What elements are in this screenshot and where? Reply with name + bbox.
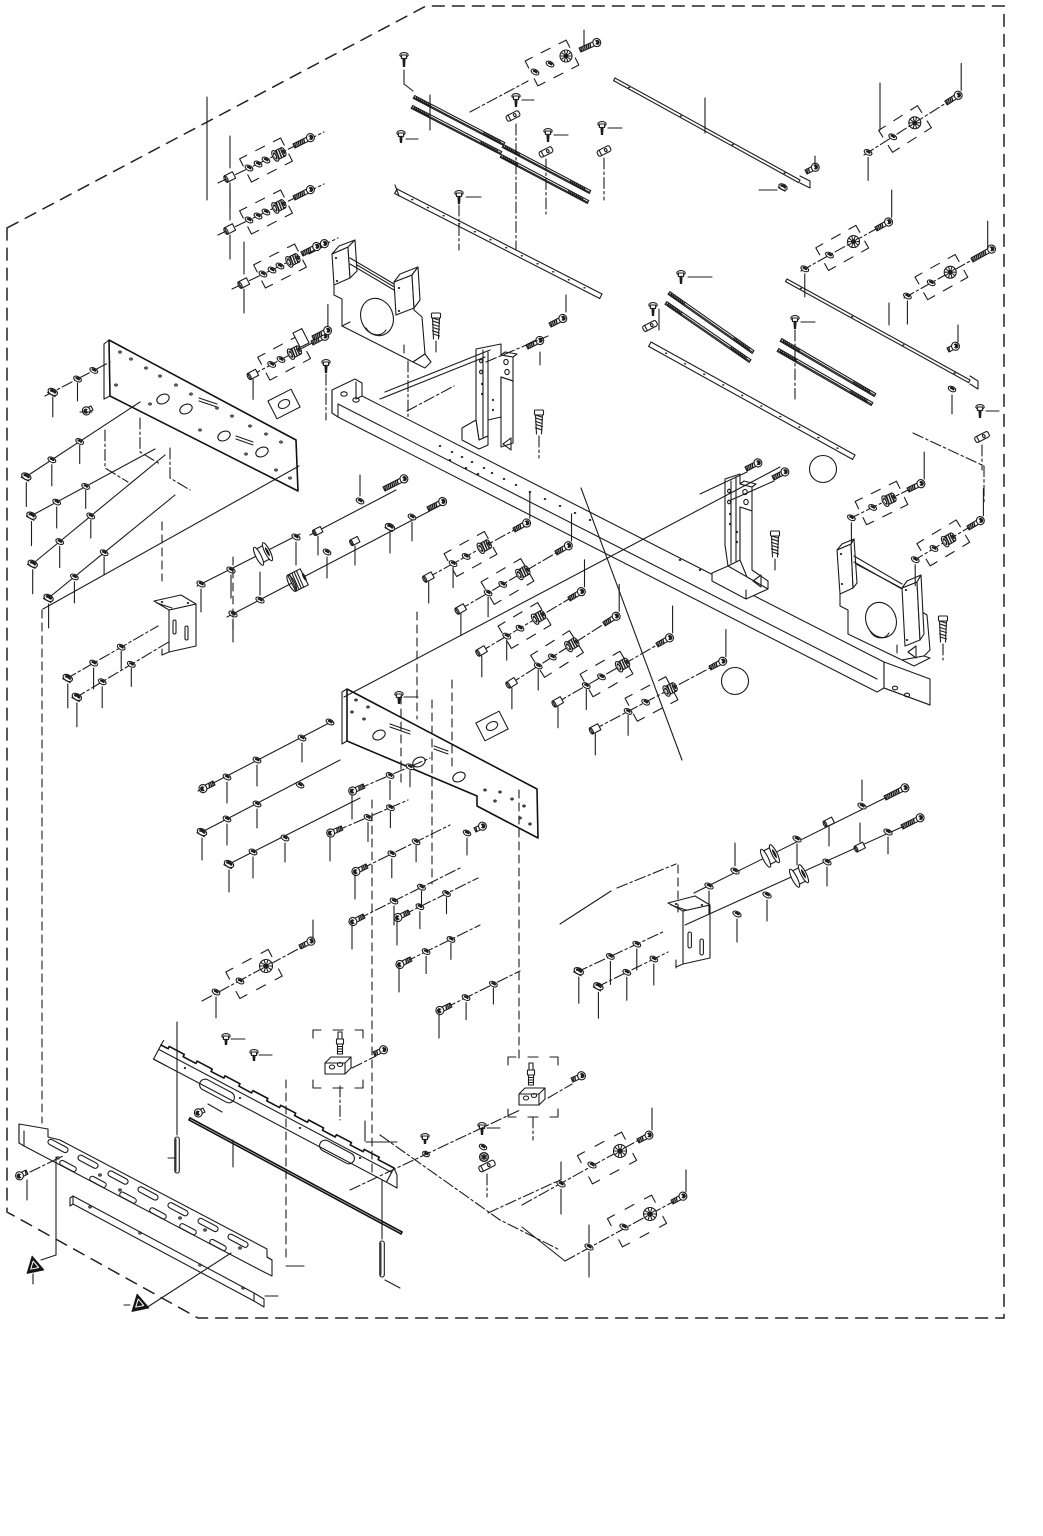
clip left of R3 — [642, 320, 658, 332]
spring screw C2 — [535, 410, 544, 415]
keyhole plate K2 — [476, 711, 508, 741]
screw-washer assembly T1 — [863, 63, 963, 180]
spring screw C1 — [432, 313, 441, 318]
screw with washer — [421, 1134, 429, 1139]
pulley shaft assembly PR1 — [694, 780, 910, 914]
nut-washer chain Lc — [27, 455, 165, 594]
screw mid2 — [544, 129, 552, 134]
clip mid2 — [538, 146, 553, 158]
screw-washer row Wa — [198, 718, 335, 803]
pulley shaft assembly PR2 — [685, 812, 926, 942]
screw-washer assembly T2 — [800, 190, 894, 297]
damper assembly D2 — [508, 1057, 587, 1140]
screw at bar end — [804, 162, 820, 176]
pulley shaft assembly PC2 — [227, 496, 448, 642]
leader line — [206, 97, 208, 200]
screw-washer assembly M1 — [847, 452, 927, 544]
top bar — [615, 78, 800, 180]
screw below plate — [322, 360, 330, 365]
slider rail R4 — [780, 341, 874, 396]
rod assembly RodA — [310, 473, 409, 555]
screw near U1b a — [548, 313, 568, 329]
nut-washer chain Ld — [43, 495, 175, 628]
screw-washer assembly A1 — [218, 132, 324, 207]
mounting plate P2 — [342, 689, 538, 838]
keyhole plate K1 — [268, 389, 300, 419]
screw-collar assembly row2 — [454, 514, 574, 635]
pulley shaft assembly PC1 — [196, 533, 301, 612]
pin C — [380, 1241, 385, 1277]
nut-washer chain Lf — [71, 640, 172, 727]
screw left of R3 — [649, 303, 657, 308]
clip bottom right — [974, 431, 990, 443]
leader line — [518, 790, 520, 1059]
screw-washer row X1 — [347, 758, 430, 819]
leader line — [416, 612, 418, 719]
screw-washer row Wb — [196, 760, 340, 860]
nut-washer chain RR1 — [573, 931, 665, 1003]
screw-washer row X7 — [435, 971, 520, 1038]
screw-washer row Wc — [223, 798, 360, 892]
leader line — [451, 680, 453, 771]
clip small — [478, 1159, 496, 1172]
screw on plate P2 — [395, 692, 403, 697]
leader line — [400, 696, 402, 786]
screw-washer assembly M2 — [910, 489, 985, 586]
leader line — [879, 83, 881, 130]
support bracket U1b — [462, 344, 517, 450]
slider rail R2 — [502, 147, 589, 193]
screw-washer assembly A4 — [246, 305, 330, 400]
screw near U2 a — [744, 457, 763, 472]
screw-collar assembly row4 — [505, 584, 622, 709]
leader line — [704, 98, 706, 133]
leader centre line — [913, 433, 984, 503]
balloon — [722, 668, 749, 695]
screw under rail — [455, 191, 463, 196]
pin B — [175, 1137, 180, 1173]
screw-washer row X2 — [325, 800, 408, 861]
screw-washer row X3 — [351, 825, 450, 899]
screw left — [81, 404, 94, 416]
thin strip — [190, 1118, 402, 1232]
centre line — [488, 1180, 560, 1213]
screw bottom right — [976, 405, 984, 410]
support bracket U2 — [712, 474, 768, 599]
mounting plate P1 — [104, 340, 298, 491]
screw-washer row X6 — [395, 925, 480, 992]
centre line elbow — [140, 418, 160, 464]
leader line — [560, 891, 611, 924]
screw-collar assembly row6 — [588, 630, 728, 755]
centre line — [350, 1110, 520, 1190]
bar B2 — [787, 279, 970, 380]
warning triangle — [24, 1254, 44, 1273]
leader line — [232, 557, 234, 630]
washer right — [947, 385, 956, 393]
leader line — [431, 700, 433, 884]
screw mid3 — [598, 122, 606, 127]
nut-washer chain RR2 — [593, 952, 668, 1018]
notched crossmember — [154, 1040, 398, 1188]
nut at bar end — [778, 182, 789, 191]
screw lower-left of U1 — [311, 325, 333, 342]
L-bracket L1 — [154, 595, 196, 655]
screw-collar assembly row1 — [422, 491, 532, 603]
leader line — [677, 865, 679, 912]
projection line — [344, 467, 780, 697]
screw below P2 tab — [473, 821, 488, 834]
screw-washer row X4 — [348, 868, 460, 949]
centre line elbow — [170, 448, 190, 490]
leader line — [161, 522, 163, 581]
nut-washer chain Le — [62, 626, 158, 708]
screw on crossmember — [222, 1034, 230, 1039]
screw right — [946, 341, 961, 354]
leader line — [232, 1140, 234, 1167]
nut-washer chain Lb — [26, 449, 155, 546]
screw-collar assembly row3 — [475, 560, 587, 677]
warning triangle — [129, 1292, 149, 1311]
projection line — [581, 488, 682, 760]
spring screw C3 — [771, 531, 780, 536]
screw-washer row X5 — [393, 878, 478, 945]
screw near U1b b — [525, 335, 545, 351]
balloon — [810, 456, 837, 483]
damper assembly D1 — [313, 1030, 389, 1120]
L-bracket L2 — [668, 896, 710, 968]
leader line — [888, 303, 890, 325]
screw-washer assembly TB1 — [470, 30, 602, 112]
clip mid3 — [596, 145, 611, 157]
projection line — [43, 466, 299, 609]
screw above R4 — [791, 316, 799, 321]
bar B3 with holes — [651, 342, 855, 455]
leader line — [364, 1121, 366, 1141]
centre line elbow — [105, 430, 128, 482]
clip mid — [505, 110, 520, 122]
bar B1 with holes — [397, 189, 602, 294]
slotted angle bar A1 — [19, 1124, 272, 1276]
centre line — [407, 386, 454, 411]
screw-washer assembly Wd — [202, 920, 316, 1018]
screw-washer assembly A2 — [218, 184, 324, 259]
screw-washer assembly FB — [522, 1170, 688, 1277]
angle bar A2 — [70, 1196, 278, 1307]
screw left of rail — [397, 131, 405, 136]
leader line — [285, 1080, 287, 1258]
screw-collar assembly row5 — [551, 606, 675, 728]
spring screw C4 — [939, 616, 948, 621]
slider rail R1 — [413, 98, 503, 145]
screw-washer assembly A3 — [232, 238, 338, 313]
nut-washer chain La — [20, 402, 140, 507]
bearing bracket U1 — [332, 240, 431, 368]
slider rail R3 — [668, 294, 752, 353]
screw at top — [400, 53, 408, 58]
leader line — [371, 800, 373, 1175]
screw near U2 b — [771, 466, 790, 481]
screw on crossmember 2 — [250, 1050, 258, 1055]
leader line — [41, 610, 43, 1123]
bearing bracket U3 — [837, 539, 930, 666]
screw left of U1 — [300, 241, 322, 258]
screw above R3 — [677, 271, 685, 276]
screw-washer assembly FA — [522, 1108, 654, 1214]
screw-washer assembly T3 — [903, 221, 997, 324]
centre line — [380, 1135, 560, 1250]
screw bottom-left — [14, 1168, 29, 1181]
screw small — [478, 1123, 486, 1128]
main base beam — [332, 379, 930, 705]
nut-washer chain La0 — [45, 362, 110, 417]
leader line — [429, 95, 431, 130]
projection line — [385, 350, 490, 392]
washer small — [478, 1143, 487, 1151]
screw mid — [512, 94, 520, 99]
